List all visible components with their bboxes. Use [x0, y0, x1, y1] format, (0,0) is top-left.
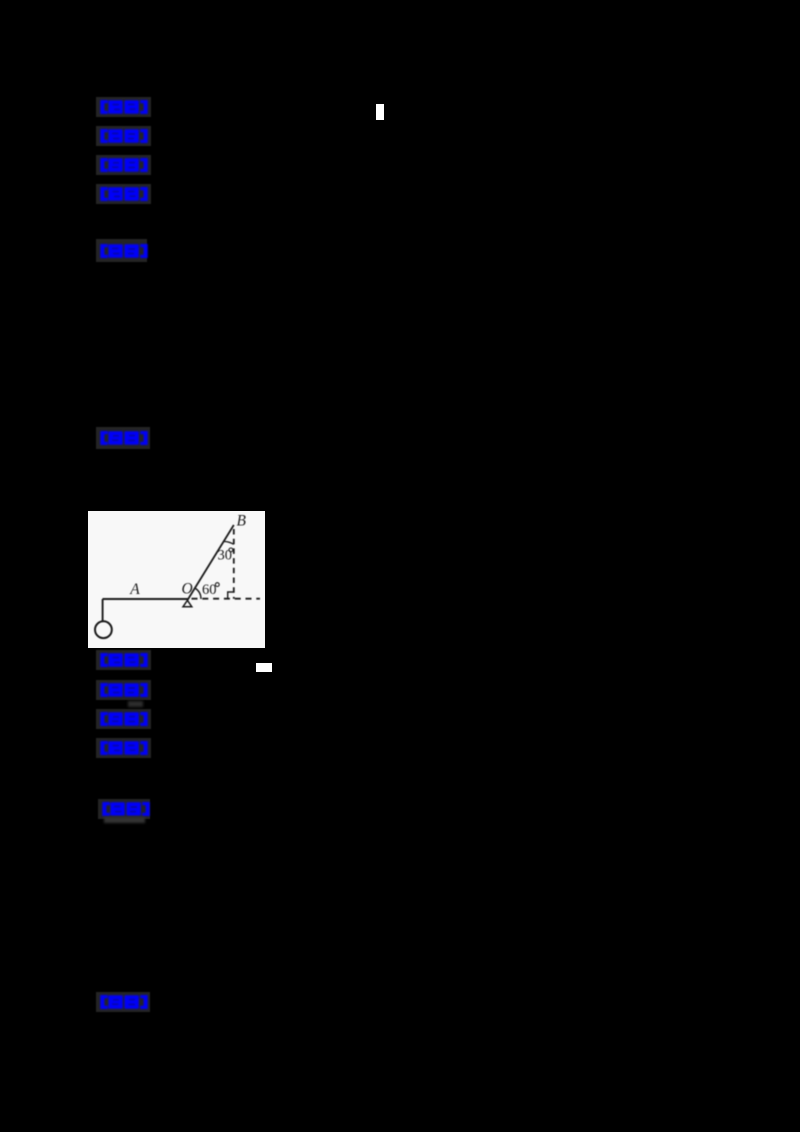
svg-text:O: O: [182, 581, 193, 598]
blue tag block2 tag 6 (dianping): [96, 992, 150, 1012]
figure panel: lever with hanging ball: [88, 511, 265, 648]
rod OB (inclined): [187, 525, 234, 600]
horizontal dashed line from O: [192, 598, 261, 600]
blue tag block1 tag 4 (fenxi): [96, 184, 151, 204]
blue tag block2 tag 4 (fenxi): [96, 738, 151, 758]
hanging ball: [95, 621, 112, 638]
cord drop at A end: [102, 599, 104, 622]
svg-text:B: B: [237, 512, 247, 529]
blue tag block2 tag 1 (kaodian): [96, 650, 151, 670]
30 deg arc at B: [224, 541, 234, 544]
fulcrum triangle at O: [183, 600, 192, 607]
small white formula box 2: [256, 663, 273, 672]
blue tag block2 tag 5 (jieda): [98, 799, 150, 819]
blue tag block1 tag 6 (dianping): [96, 427, 150, 449]
lever rod OA (horizontal): [103, 598, 189, 600]
60 deg arc at O: [195, 588, 201, 599]
blue tag block1 tag 5 (jieda): [96, 239, 147, 262]
blue tag block1 tag 1 (kaodian): [96, 97, 151, 117]
svg-text:30: 30: [218, 547, 233, 563]
right-angle mark: [228, 592, 234, 599]
faint answer remnant under block2 zhuanti: [128, 701, 143, 708]
faint answer remnant under block2 jieda: [104, 817, 145, 823]
blue tag block2 tag 2 (zhuanti): [96, 680, 151, 700]
blue tag block1 tag 2 (zhuanti): [96, 126, 151, 146]
small white formula box 1: [376, 104, 384, 121]
blue tag block1 tag 3 (daan): [96, 155, 151, 175]
svg-text:60: 60: [202, 582, 217, 598]
svg-text:A: A: [129, 581, 140, 598]
blue tag block2 tag 3 (daan): [96, 709, 151, 729]
vertical dashed line from B: [233, 529, 235, 599]
